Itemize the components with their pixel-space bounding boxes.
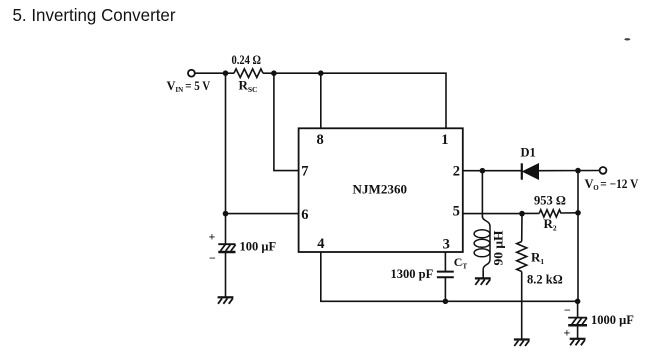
- svg-text:+: +: [564, 326, 571, 340]
- svg-text:90 μH: 90 μH: [492, 230, 506, 265]
- wire node C to pin 8: [320, 73, 322, 128]
- node G: [480, 168, 486, 174]
- svg-text:V: V: [585, 177, 594, 191]
- wire node F to capacitor C3: [577, 301, 579, 317]
- wire pin 5 to node I: [463, 213, 522, 215]
- node H: [575, 168, 581, 174]
- resistor R1: [517, 242, 527, 272]
- capacitor CT 1300pF: [437, 272, 454, 278]
- wire R2 to node J: [561, 212, 578, 214]
- resistor RSC: [234, 69, 263, 78]
- svg-text:7: 7: [301, 164, 308, 180]
- wire RSC to node B: [263, 72, 274, 74]
- svg-text:−: −: [209, 251, 216, 265]
- svg-text:5: 5: [453, 204, 460, 220]
- svg-text:NJM2360: NJM2360: [353, 181, 408, 196]
- wire input to node A: [195, 72, 226, 74]
- wire inductor to ground: [482, 271, 484, 278]
- node J: [575, 210, 581, 216]
- svg-text:= 5 V: = 5 V: [185, 79, 210, 93]
- svg-text:V: V: [167, 79, 176, 93]
- wire diode to output: [539, 170, 600, 172]
- node A: [223, 70, 229, 76]
- wire pin 3 to CT: [444, 252, 446, 272]
- ground inductor: [475, 278, 491, 285]
- ground R1: [514, 340, 530, 347]
- svg-text:−: −: [564, 303, 571, 317]
- wire node D to capacitor C2: [225, 214, 227, 245]
- svg-text:4: 4: [317, 236, 324, 252]
- op-amp U1 NJM2360 box: [299, 128, 463, 252]
- svg-text:953 Ω: 953 Ω: [534, 193, 566, 207]
- wire C3 to ground: [577, 325, 579, 339]
- svg-text:6: 6: [301, 207, 308, 223]
- svg-text:1300 pF: 1300 pF: [391, 267, 434, 281]
- node B: [271, 70, 277, 76]
- wire node J to node F: [577, 213, 579, 301]
- diode D1: [522, 163, 539, 179]
- ground input cap: [218, 297, 234, 304]
- svg-text:1: 1: [441, 132, 448, 148]
- wire C2 to ground: [225, 252, 227, 297]
- svg-text:100 μF: 100 μF: [240, 240, 277, 254]
- inductor L1 90uH: [474, 217, 490, 272]
- svg-text:5. Inverting Converter: 5. Inverting Converter: [13, 5, 176, 25]
- wire node A to node D: [225, 73, 227, 213]
- capacitor C2 100uF: [218, 244, 235, 252]
- capacitor C3 1000uF: [568, 318, 587, 326]
- output terminal: [600, 167, 607, 174]
- svg-text:+: +: [209, 230, 216, 244]
- wire node I to R2: [522, 212, 539, 214]
- wire node H to node J: [577, 171, 579, 213]
- label VO = -12 V: [585, 177, 639, 192]
- wire node I to R1: [521, 214, 523, 242]
- node F: [575, 299, 581, 305]
- svg-text:1000 μF: 1000 μF: [591, 313, 634, 327]
- wire node B to pin 7: [274, 73, 299, 170]
- svg-text:D1: D1: [521, 146, 536, 160]
- wire node G to inductor: [481, 171, 483, 218]
- ground output cap: [570, 339, 586, 346]
- svg-text:= −12 V: = −12 V: [600, 177, 638, 191]
- svg-text:IN: IN: [175, 86, 183, 94]
- svg-text:3: 3: [443, 236, 450, 252]
- label VIN = 5 V: [167, 79, 211, 94]
- svg-text:2: 2: [453, 164, 460, 180]
- wire top rail node B to pin1 corner: [274, 73, 446, 128]
- svg-text:O: O: [593, 184, 599, 192]
- node E: [443, 299, 449, 305]
- input terminal: [188, 70, 195, 77]
- wire R1 to ground: [521, 272, 523, 340]
- scan speck: [624, 38, 630, 40]
- wire CT to node E: [444, 277, 446, 301]
- wire node A to RSC: [226, 72, 235, 74]
- node C: [318, 70, 324, 76]
- svg-text:0.24 Ω: 0.24 Ω: [232, 53, 262, 67]
- node D: [223, 211, 229, 217]
- svg-text:8.2 kΩ: 8.2 kΩ: [527, 272, 563, 286]
- svg-text:8: 8: [317, 132, 324, 148]
- wire pin 2 to diode: [463, 170, 522, 172]
- resistor R2: [539, 210, 561, 217]
- wire node D to pin 6: [226, 213, 299, 215]
- wire pin 4 to bottom rail: [321, 252, 578, 301]
- node I: [519, 211, 525, 217]
